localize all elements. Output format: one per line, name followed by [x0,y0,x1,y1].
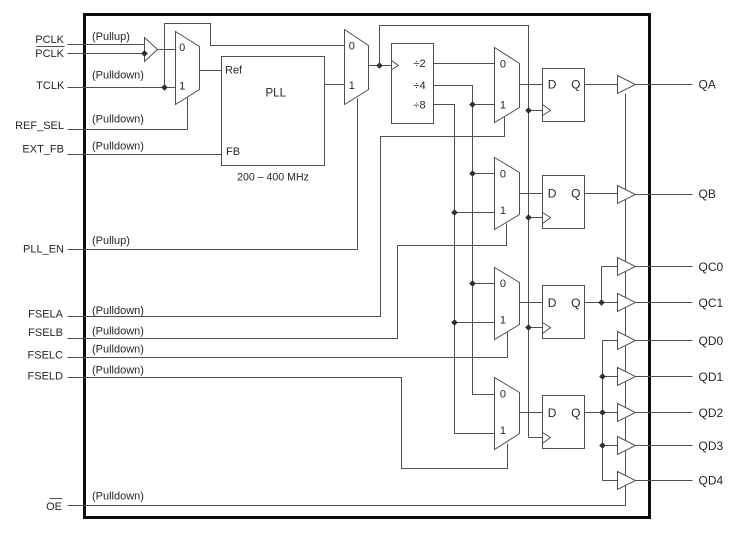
svg-text:Q: Q [571,78,580,92]
svg-text:1: 1 [349,80,355,92]
svg-text:0: 0 [349,41,355,53]
svg-text:(Pulldown): (Pulldown) [92,344,144,356]
svg-text:FSELA: FSELA [28,308,64,320]
svg-text:Q: Q [571,187,580,201]
svg-text:1: 1 [500,425,506,437]
svg-text:D: D [548,406,557,420]
svg-text:REF_SEL: REF_SEL [15,120,64,132]
svg-text:EXT_FB: EXT_FB [22,144,64,156]
svg-text:(Pulldown): (Pulldown) [92,69,144,81]
svg-text:(Pulldown): (Pulldown) [92,491,144,503]
svg-text:(Pullup): (Pullup) [92,31,130,43]
svg-text:1: 1 [500,315,506,327]
svg-text:Ref: Ref [225,65,243,77]
svg-text:QC1: QC1 [699,296,724,310]
svg-text:0: 0 [500,58,506,70]
svg-text:FSELD: FSELD [28,371,64,383]
svg-text:1: 1 [500,205,506,217]
svg-text:÷8: ÷8 [413,99,425,111]
svg-text:÷2: ÷2 [413,58,425,70]
svg-text:÷4: ÷4 [413,80,425,92]
svg-text:QD4: QD4 [699,474,724,488]
svg-text:QD2: QD2 [699,406,724,420]
svg-text:Q: Q [571,296,580,310]
svg-text:(Pulldown): (Pulldown) [92,305,144,317]
svg-text:PCLK: PCLK [35,34,64,46]
svg-text:(Pulldown): (Pulldown) [92,326,144,338]
svg-text:QD1: QD1 [699,370,724,384]
svg-text:D: D [548,187,557,201]
svg-text:PLL: PLL [266,88,287,100]
svg-text:PLL_EN: PLL_EN [23,243,64,255]
svg-text:1: 1 [500,100,506,112]
svg-text:FSELB: FSELB [28,327,63,339]
svg-text:(Pulldown): (Pulldown) [92,114,144,126]
svg-text:(Pullup): (Pullup) [92,235,130,247]
svg-text:QC0: QC0 [699,260,724,274]
svg-text:TCLK: TCLK [36,80,65,92]
svg-text:0: 0 [500,169,506,181]
svg-text:200 – 400 MHz: 200 – 400 MHz [237,172,309,184]
svg-text:0: 0 [500,389,506,401]
svg-text:OE: OE [46,501,62,513]
svg-text:1: 1 [179,80,185,92]
svg-text:D: D [548,78,557,92]
svg-text:QD3: QD3 [699,439,724,453]
svg-text:0: 0 [500,278,506,290]
svg-text:QD0: QD0 [699,334,724,348]
svg-text:QA: QA [699,78,716,92]
svg-text:Q: Q [571,406,580,420]
svg-text:PCLK: PCLK [35,48,64,60]
svg-text:D: D [548,296,557,310]
svg-text:(Pulldown): (Pulldown) [92,365,144,377]
svg-text:(Pulldown): (Pulldown) [92,141,144,153]
svg-text:0: 0 [179,42,185,54]
svg-text:FB: FB [226,146,240,158]
svg-text:FSELC: FSELC [28,350,64,362]
svg-text:QB: QB [699,187,716,201]
